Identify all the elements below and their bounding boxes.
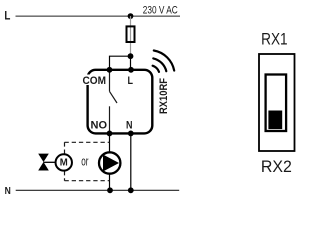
RF waves icon [153,51,175,72]
svg-text:230 V AC: 230 V AC [143,5,178,17]
svg-text:N: N [5,185,11,197]
junction below fuse [128,53,134,59]
svg-text:COM: COM [83,75,107,87]
svg-text:RX2: RX2 [261,158,292,176]
svg-text:or: or [81,154,88,168]
wire from L rail through fuse [130,16,132,56]
terminal dot NO [107,131,113,137]
wire branch to COM terminal [110,56,131,70]
pump symbol [99,152,120,173]
wire N rail [16,189,180,191]
switch contact inside relay [110,71,118,132]
svg-text:RX10RF: RX10RF [158,78,170,114]
relay module RX10RF body [88,70,153,134]
terminal dot COM [107,67,113,73]
svg-text:L: L [4,10,10,22]
motor M actuator [56,154,72,170]
terminal dot N [128,131,134,137]
svg-text:M: M [60,157,68,169]
junction N wire on N rail [128,187,134,193]
svg-text:N: N [126,119,133,131]
junction pump on N rail [107,187,113,193]
wire pump to N rail [109,174,111,190]
DIP switch slider [268,111,282,130]
wire junction to L terminal [130,56,132,70]
wire NO terminal down to pump [109,133,111,152]
svg-text:L: L [128,75,134,87]
fuse F [127,26,135,42]
svg-text:RX1: RX1 [261,31,288,49]
DIP switch outer frame [259,54,295,151]
terminal dot L [128,67,134,73]
svg-text:NO: NO [91,119,108,131]
DIP switch slot [266,75,287,132]
dashed alternative-load box [65,142,110,180]
junction on L rail [128,13,134,19]
wire L rail [16,15,181,17]
wire N terminal down to N rail [130,133,132,190]
label COM [82,75,109,86]
wire valve to motor [44,161,56,163]
valve symbol [38,154,49,171]
